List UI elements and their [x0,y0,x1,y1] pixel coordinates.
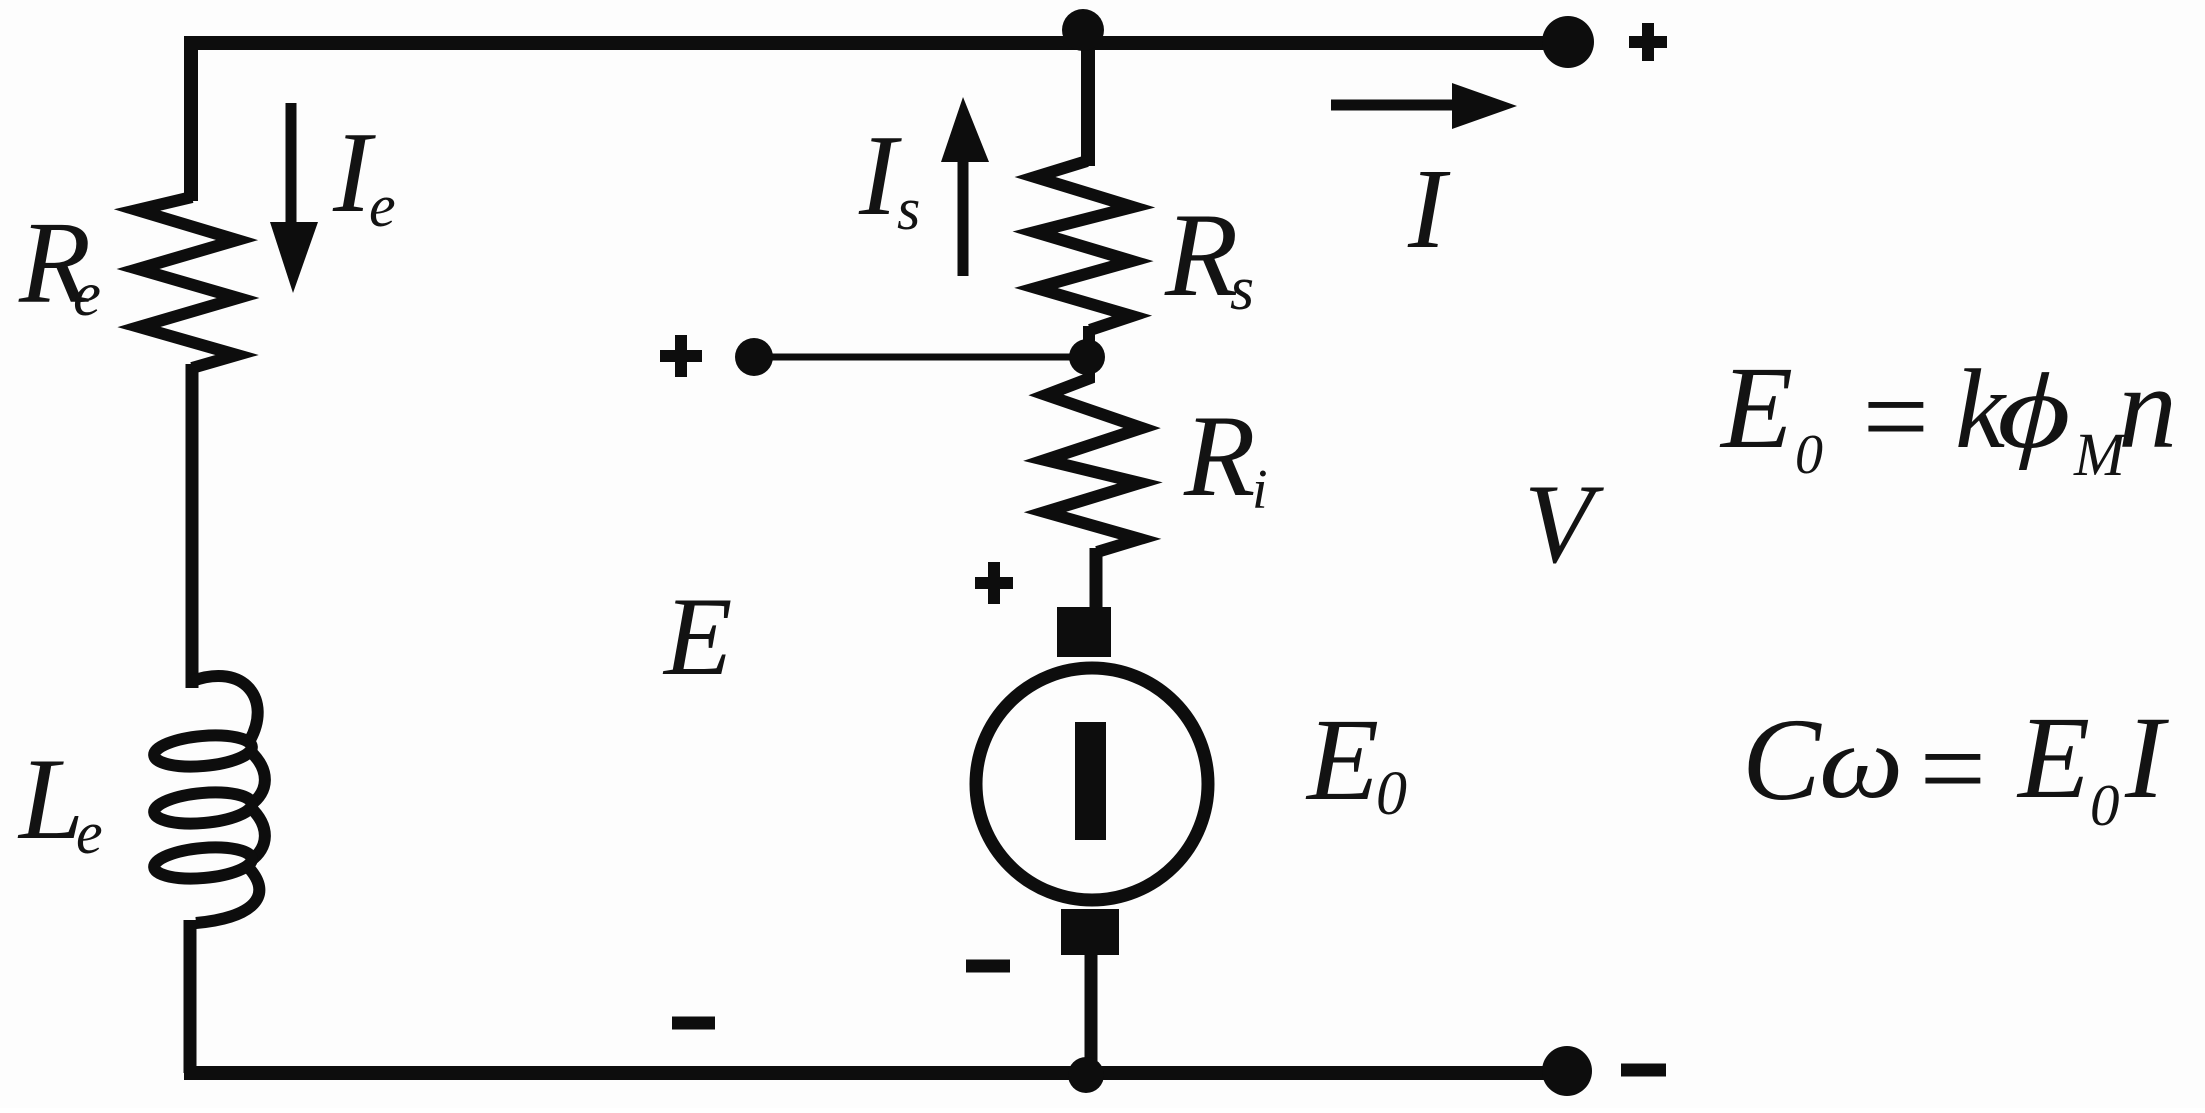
arrow Is head [941,97,989,162]
svg-text:I: I [858,112,902,239]
svg-text:E: E [1305,694,1379,825]
svg-text:n: n [2118,342,2177,473]
svg-text:e: e [369,173,396,239]
resistor Ri [1045,377,1142,552]
node dot between Rs Ri [1069,339,1105,375]
svg-text:e: e [76,800,103,866]
inductor Le ring 2 [153,789,253,827]
plus sign above motor [975,562,1013,604]
svg-text:=: = [1855,351,1935,482]
svg-text:s: s [1230,255,1254,323]
junction dot top [1062,9,1104,51]
terminal dot bottom right [1542,1046,1592,1096]
wire E node horizontal thin [754,354,1087,361]
svg-text:s: s [897,176,920,242]
svg-text:ϕ: ϕ [1997,351,2071,471]
inductor Le ring 3 [153,844,253,882]
wire left vertical upper [184,36,198,201]
svg-text:E: E [2016,692,2090,823]
junction dot bottom [1068,1057,1104,1093]
minus sign below motor [966,960,1010,973]
svg-text:=: = [1912,703,1992,834]
wire left vertical middle [186,364,199,688]
svg-text:L: L [17,735,84,864]
svg-text:i: i [1252,459,1268,521]
svg-text:e: e [73,259,101,329]
svg-text:0: 0 [1376,760,1407,828]
wire middle vertical top [1081,43,1095,166]
arrow I shaft [1331,100,1459,111]
wire Ri to brush [1090,548,1103,612]
terminal dot top right [1542,16,1594,68]
svg-text:0: 0 [1795,424,1823,486]
svg-text:E: E [1719,342,1793,473]
node dot E plus [735,338,773,376]
armature bar [1075,722,1106,840]
brush square bottom [1061,909,1119,955]
arrow I head [1452,83,1517,129]
wire node E stub [1083,326,1095,382]
wire bottom horizontal [184,1066,1567,1080]
arrow Ie head [270,222,318,293]
inductor Le top arc [192,676,258,740]
minus sign bottom right terminal [1621,1064,1666,1077]
wire top horizontal [184,36,1568,50]
wire motor to bottom [1085,951,1098,1073]
brush square top [1057,607,1111,657]
inductor Le ring 1 [153,732,253,770]
wire left vertical lower [184,920,197,1073]
plus sign top right [1629,23,1667,61]
inductor Le right arc 2 [249,806,265,861]
inductor Le bottom arc [196,866,259,923]
resistor Re [137,197,238,368]
inductor Le right arc 1 [249,750,265,805]
arrow Is shaft [958,162,969,276]
motor E0 circle [976,668,1208,900]
arrow Ie shaft [286,103,297,226]
svg-text:R: R [1183,392,1255,521]
svg-text:C: C [1742,694,1822,825]
svg-text:E: E [662,575,732,699]
svg-text:0: 0 [2090,772,2120,838]
svg-text:ω: ω [1819,705,1903,820]
svg-text:I: I [2124,692,2169,823]
plus sign at node E [660,335,702,377]
minus sign bottom left (E) [672,1017,715,1030]
svg-text:R: R [1164,188,1238,321]
svg-text:V: V [1524,462,1604,587]
resistor Rs [1035,161,1133,330]
svg-text:I: I [1407,145,1451,272]
